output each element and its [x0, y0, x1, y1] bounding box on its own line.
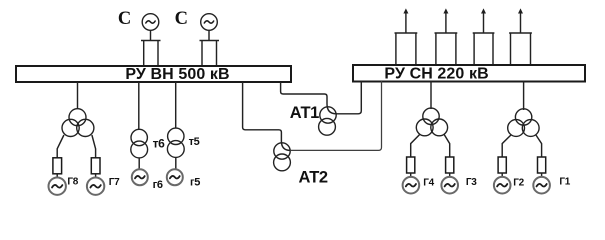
- wire C2 portal left leg: [201, 41, 203, 67]
- wire C2 portal bar: [200, 40, 220, 42]
- generator Г6 circle: [132, 169, 148, 185]
- generator Г8 tilde: [52, 185, 62, 188]
- wire transformer T6 stem: [138, 82, 140, 130]
- transformer TA top winding: [423, 108, 439, 124]
- feeder W4 arrow stem: [520, 12, 522, 33]
- generator Г8 circle: [49, 178, 66, 195]
- breaker Q7: [91, 158, 100, 174]
- svg-text:г6: г6: [153, 179, 163, 191]
- wire T6 to G6: [138, 158, 140, 170]
- bus РУ СН 220 кВ: [353, 65, 585, 82]
- wire C1 portal left leg: [143, 41, 145, 67]
- transformer TB low winding b: [522, 120, 539, 137]
- svg-text:т5: т5: [189, 136, 200, 148]
- generator Г2 circle: [494, 177, 511, 194]
- generator Г3 circle: [441, 177, 458, 194]
- svg-text:АТ2: АТ2: [299, 169, 328, 187]
- generator Г3 tilde: [445, 184, 455, 187]
- feeder W2 left leg: [435, 33, 437, 65]
- wire C1 stem: [150, 30, 152, 40]
- feeder W1 portal bar: [395, 32, 418, 34]
- autotransformer AT1 bottom circle: [319, 118, 336, 135]
- svg-text:РУ ВН 500 кВ: РУ ВН 500 кВ: [125, 66, 229, 83]
- breaker Q2: [498, 157, 506, 173]
- feeder W2 portal bar: [435, 32, 458, 34]
- wire to breaker Q7: [92, 135, 96, 159]
- feeder W3 left leg: [473, 33, 475, 65]
- feeder W2 arrow stem: [445, 12, 447, 33]
- wire transformer T5 stem: [175, 82, 177, 128]
- bus РУ ВН 500 кВ: [16, 66, 291, 82]
- feeder W1 arrow stem: [405, 12, 407, 33]
- svg-text:Г1: Г1: [559, 176, 570, 187]
- feeder W1 arrowhead: [403, 8, 408, 13]
- breaker Q8: [53, 158, 62, 174]
- wire breaker Q3 to G3: [449, 173, 451, 177]
- wire breaker Q4 to G4: [410, 173, 412, 177]
- feeder W3 arrowhead: [481, 8, 486, 13]
- wire transformer T-left stem: [77, 82, 79, 109]
- system source C2 generator circle: [201, 14, 218, 31]
- autotransformer AT1 top circle: [320, 107, 336, 123]
- generator Г5 circle: [167, 169, 183, 185]
- wire breaker Q8 to G8: [56, 174, 58, 178]
- wire to breaker Q8: [57, 135, 64, 159]
- wire breaker Q2 to G2: [501, 173, 503, 177]
- wire C2 stem: [208, 30, 210, 40]
- svg-text:Г7: Г7: [109, 177, 120, 188]
- wire AT1 to 220kV bus: [336, 81, 361, 114]
- transformer TB top winding: [515, 109, 531, 125]
- generator Г4 tilde: [406, 184, 416, 187]
- wire C2 portal right leg: [216, 41, 218, 67]
- wire C1 portal bar: [141, 40, 161, 42]
- feeder W3 arrow stem: [483, 12, 485, 33]
- system source C2 tilde: [204, 21, 213, 23]
- generator Г4 circle: [403, 177, 420, 194]
- transformer T6 low winding: [131, 141, 148, 158]
- feeder W2 right leg: [455, 33, 457, 65]
- wire to breaker Q3: [444, 134, 450, 157]
- svg-text:Г3: Г3: [466, 177, 477, 188]
- wire T5 to G5: [175, 157, 177, 169]
- generator Г7 circle: [87, 178, 104, 195]
- transformer TA low winding a: [416, 119, 433, 136]
- system source C1 generator circle: [142, 14, 159, 31]
- autotransformer AT2 top circle: [274, 143, 290, 159]
- feeder W4 portal bar: [509, 32, 532, 34]
- transformer T-left low winding a: [62, 119, 79, 136]
- transformer TB low winding a: [508, 120, 525, 137]
- transformer TA low winding b: [431, 119, 448, 136]
- wire AT2 from 500kV bus: [243, 82, 291, 150]
- wire transformer TA stem: [430, 81, 432, 109]
- svg-text:т6: т6: [153, 137, 166, 151]
- svg-text:Г8: Г8: [67, 177, 78, 188]
- feeder W1 right leg: [415, 33, 417, 65]
- transformer T-left low winding b: [77, 119, 94, 136]
- wire transformer TB stem: [523, 81, 525, 110]
- feeder W3 portal bar: [473, 32, 495, 34]
- wire breaker Q1 to G1: [541, 173, 543, 177]
- generator Г5 tilde: [170, 176, 180, 179]
- generator Г6 tilde: [135, 176, 145, 179]
- wire AT2 to 220kV bus: [290, 81, 381, 150]
- wire breaker Q7 to G7: [95, 174, 97, 178]
- autotransformer AT2 bottom circle: [274, 154, 291, 171]
- feeder W2 arrowhead: [443, 8, 448, 13]
- wire C1 portal right leg: [157, 41, 159, 67]
- generator Г2 tilde: [497, 184, 507, 187]
- wire to breaker Q4: [411, 134, 420, 157]
- transformer T-left top winding: [69, 109, 86, 126]
- svg-text:С: С: [118, 9, 131, 29]
- generator Г1 tilde: [537, 184, 547, 187]
- svg-text:С: С: [175, 9, 188, 29]
- transformer T5 low winding: [167, 141, 184, 158]
- generator Г7 tilde: [90, 185, 100, 188]
- transformer T6 top winding: [131, 129, 147, 145]
- svg-text:АТ1: АТ1: [290, 104, 319, 122]
- feeder W4 right leg: [530, 33, 532, 65]
- transformer T5 top winding: [168, 128, 184, 144]
- generator Г1 circle: [533, 177, 550, 194]
- breaker Q4: [407, 157, 415, 173]
- breaker Q1: [538, 157, 546, 173]
- svg-text:Г4: Г4: [423, 178, 434, 189]
- feeder W1 left leg: [395, 33, 397, 65]
- feeder W4 left leg: [510, 33, 512, 65]
- svg-text:РУ СН 220 кВ: РУ СН 220 кВ: [384, 66, 488, 83]
- feeder W3 right leg: [492, 33, 494, 65]
- system source C1 tilde: [146, 21, 155, 23]
- wire AT1 from 500kV bus: [281, 82, 337, 114]
- feeder W4 arrowhead: [518, 8, 523, 13]
- wire to breaker Q1: [536, 135, 542, 157]
- breaker Q3: [446, 157, 454, 173]
- svg-text:Г2: Г2: [513, 178, 524, 189]
- svg-text:г5: г5: [190, 176, 200, 188]
- wire to breaker Q2: [502, 135, 511, 157]
